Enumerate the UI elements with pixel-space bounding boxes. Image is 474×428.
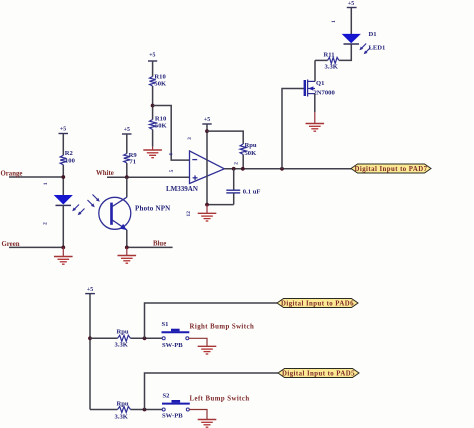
- svg-text:S1: S1: [162, 321, 169, 328]
- node branch1 junction: [143, 336, 147, 340]
- node branch2 junction: [143, 408, 147, 412]
- wire divider to inverting input: [153, 106, 190, 161]
- power +5 P5: [347, 1, 357, 34]
- svg-text:S2: S2: [163, 393, 171, 400]
- svg-text:Rpu: Rpu: [117, 401, 129, 408]
- svg-text:50K: 50K: [245, 150, 258, 157]
- wire R11 to drain corner: [315, 59, 328, 61]
- svg-text:Digital Input to PAD7: Digital Input to PAD7: [355, 166, 428, 173]
- svg-text:0.1 uF: 0.1 uF: [243, 188, 261, 195]
- power +5 P1: [59, 127, 69, 156]
- svg-text:+5: +5: [87, 287, 93, 293]
- transistor Q1 2N7000: [305, 80, 336, 97]
- ground G1: [54, 247, 73, 264]
- wire +5 rail bottom: [89, 294, 91, 410]
- svg-text:5: 5: [169, 169, 175, 172]
- hexagon port Digital Input to PAD7: [351, 164, 431, 173]
- wire op-amp supply through: [206, 124, 208, 205]
- node divider junction: [151, 104, 155, 108]
- wire R10a to node: [152, 86, 154, 120]
- wire white net to op-amp: [107, 176, 190, 178]
- svg-text:3.3K: 3.3K: [115, 414, 129, 421]
- wire collector: [126, 177, 128, 197]
- wire LED cathode: [62, 205, 64, 247]
- svg-text:Digital Input to PAD5: Digital Input to PAD5: [282, 370, 355, 377]
- LED D1: [343, 31, 385, 54]
- svg-text:Green: Green: [2, 241, 20, 248]
- svg-text:LM339AN: LM339AN: [166, 185, 198, 193]
- wire supply to Rpu: [207, 131, 243, 144]
- resistor R9: [124, 152, 138, 166]
- resistor Rpu branch2: [115, 401, 131, 421]
- svg-text:12: 12: [186, 211, 192, 217]
- resistor R11: [324, 52, 340, 71]
- node green junction: [61, 246, 65, 250]
- svg-text:2N7000: 2N7000: [314, 90, 336, 97]
- hexagon port Digital Input to PAD5: [278, 369, 359, 378]
- svg-text:1: 1: [331, 20, 337, 23]
- wire branch1 to port: [145, 303, 278, 338]
- ground G3: [143, 147, 162, 158]
- svg-text:R11: R11: [324, 52, 335, 59]
- svg-text:R2: R2: [65, 150, 74, 157]
- svg-text:Right Bump Switch: Right Bump Switch: [190, 324, 255, 331]
- svg-text:Rpu: Rpu: [117, 329, 129, 336]
- node supply junction: [205, 129, 209, 133]
- resistor R10 lower: [150, 116, 168, 130]
- node gate junction: [280, 167, 284, 171]
- node orange junction: [61, 175, 65, 179]
- resistor Rpu comparator pull-up: [240, 142, 257, 157]
- svg-text:2: 2: [43, 222, 49, 225]
- svg-text:Photo NPN: Photo NPN: [135, 205, 170, 213]
- power +5 P3: [148, 53, 157, 77]
- op-amp U1 LM339AN: [166, 151, 224, 193]
- switch S1 SW-PB: [162, 321, 190, 349]
- wire branch2 mid: [131, 409, 163, 411]
- wire R11 to LED cathode: [339, 44, 351, 60]
- ground G2: [118, 247, 137, 263]
- wire R2 to LED: [62, 165, 64, 196]
- node rpu junction: [241, 167, 245, 171]
- wire orange net: [9, 176, 63, 178]
- svg-text:Digital Input to PAD6: Digital Input to PAD6: [281, 300, 354, 307]
- svg-text:2: 2: [234, 162, 240, 165]
- hexagon port Digital Input to PAD6: [277, 299, 358, 308]
- svg-text:Left Bump Switch: Left Bump Switch: [190, 396, 250, 403]
- resistor R2: [60, 150, 75, 165]
- wire emitter down: [126, 230, 128, 248]
- svg-text:LED1: LED1: [369, 45, 386, 52]
- wire drain: [314, 60, 316, 81]
- svg-text:SW-PB: SW-PB: [162, 342, 183, 349]
- node blue junction: [125, 246, 129, 250]
- ground G6: [198, 346, 217, 354]
- resistor R10 upper: [150, 73, 167, 87]
- node rail junction: [88, 336, 92, 340]
- svg-text:50K: 50K: [154, 80, 167, 87]
- wire branch2 left: [90, 409, 118, 411]
- svg-text:Q1: Q1: [316, 80, 324, 87]
- svg-text:71: 71: [129, 159, 136, 166]
- svg-text:+5: +5: [348, 1, 354, 7]
- svg-text:+5: +5: [204, 117, 210, 123]
- svg-text:4: 4: [169, 153, 175, 156]
- ground G5: [306, 112, 325, 131]
- node white junction: [125, 175, 129, 179]
- svg-text:+5: +5: [149, 53, 155, 59]
- wire switch1 to gnd: [189, 338, 207, 346]
- wire green net: [9, 246, 63, 248]
- node cap junction: [232, 167, 236, 171]
- wire cap bottom to gnd net: [207, 204, 234, 206]
- svg-text:White: White: [96, 170, 114, 177]
- svg-text:SW-PB: SW-PB: [162, 413, 183, 420]
- node gnd junction: [205, 203, 209, 207]
- switch S2 SW-PB: [162, 393, 190, 420]
- svg-text:3.3K: 3.3K: [325, 64, 339, 71]
- svg-text:100: 100: [65, 158, 76, 165]
- svg-text:3.3K: 3.3K: [115, 342, 129, 349]
- svg-text:Blue: Blue: [153, 241, 166, 248]
- wire Rpu to output: [242, 155, 244, 169]
- svg-text:50K: 50K: [155, 123, 168, 130]
- svg-text:Orange: Orange: [1, 171, 23, 178]
- ground G7: [198, 420, 217, 428]
- wire blue net: [127, 246, 173, 248]
- wire switch2 to gnd: [189, 410, 207, 420]
- wire branch2 to port: [145, 373, 279, 410]
- resistor Rpu branch1: [115, 329, 131, 349]
- wire gate net: [282, 89, 304, 169]
- svg-text:+5: +5: [60, 127, 66, 133]
- svg-text:+5: +5: [124, 127, 130, 133]
- transistor Q photo NPN: [88, 195, 171, 231]
- LED D2 emitter: [55, 196, 85, 216]
- power +5 P6: [85, 287, 95, 294]
- ground G4: [198, 205, 217, 221]
- power +5 P4: [202, 117, 211, 124]
- wire R10b to gnd: [152, 130, 154, 147]
- svg-text:D1: D1: [369, 31, 377, 38]
- wire R9 to white node: [126, 163, 128, 177]
- wire branch1 mid: [131, 337, 163, 339]
- wire source: [314, 94, 316, 112]
- svg-text:3: 3: [187, 137, 193, 140]
- wire op-amp output net: [224, 168, 352, 170]
- power +5 P2: [122, 127, 132, 154]
- svg-text:Rpu: Rpu: [245, 142, 257, 149]
- svg-text:1: 1: [43, 182, 49, 185]
- capacitor C 0.1uF: [226, 169, 260, 205]
- wire branch1 left: [90, 337, 118, 339]
